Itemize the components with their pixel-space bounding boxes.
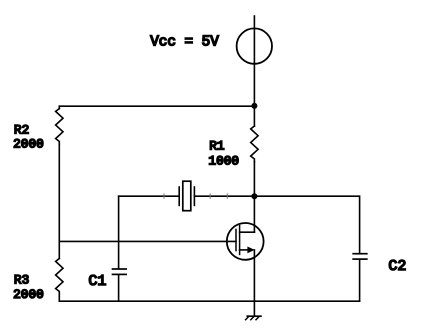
transistor Q1 source connect with arrow [240, 247, 255, 254]
wire: bottom rail [59, 300, 359, 302]
svg-text:C2: C2 [388, 258, 406, 275]
node: junction dot Vcc rail / R2 branch [251, 103, 257, 109]
svg-text:2000: 2000 [13, 287, 44, 302]
transistor Q1 channel bar [239, 226, 241, 255]
crystal Y1 left plate [178, 187, 180, 205]
wire: left rail bottom segment [58, 294, 60, 301]
pin tick crystal pin 2 [209, 194, 211, 199]
wire: crystal branch vertical down to C1 [118, 196, 120, 268]
wire: top horizontal from left rail to Vcc junction [59, 105, 254, 107]
wire: left rail middle segment [58, 144, 60, 258]
wire: top of right rail from junction to C2 branch [254, 196, 359, 253]
wire: crystal left lead [119, 195, 180, 197]
wire: source vertical down through bottom rail to ground [253, 250, 255, 316]
wire: gate horizontal from left rail to transistor gate [59, 240, 236, 242]
pin tick transistor drain lead [226, 194, 228, 199]
ground symbol [246, 316, 261, 320]
transistor Q1 gate bar [235, 229, 237, 250]
transistor Q1 circle [227, 223, 264, 260]
capacitor C1 [113, 269, 127, 274]
svg-text:R3: R3 [14, 273, 29, 288]
resistor R2 [56, 109, 63, 145]
crystal Y1 body [183, 181, 191, 211]
wire: Vcc vertical feed (top stub through source down to R1) [253, 16, 255, 126]
node: junction dot crystal / drain / C2 [251, 193, 257, 199]
pin tick crystal pin 1 [163, 194, 165, 199]
svg-text:2000: 2000 [13, 137, 44, 152]
resistor R3 [56, 259, 63, 295]
wire: right rail bottom segment [359, 260, 361, 302]
voltage source V1 circle [237, 28, 272, 63]
svg-text:R2: R2 [14, 122, 29, 137]
wire: crystal right lead to junction [194, 195, 254, 197]
wire: C1 bottom lead to ground rail [118, 275, 120, 301]
svg-text:R1: R1 [209, 138, 225, 153]
transistor Q1 drain connect [240, 231, 255, 233]
wire: left rail upper segment [58, 106, 60, 108]
svg-text:C1: C1 [88, 273, 106, 290]
wire: centre rail from R1 down through node into transistor drain [253, 162, 255, 232]
svg-text:Vcc = 5V: Vcc = 5V [150, 34, 219, 50]
svg-text:1000: 1000 [208, 154, 239, 169]
crystal Y1 right plate [193, 187, 195, 205]
resistor R1 [251, 126, 258, 162]
capacitor C2 [353, 254, 367, 259]
